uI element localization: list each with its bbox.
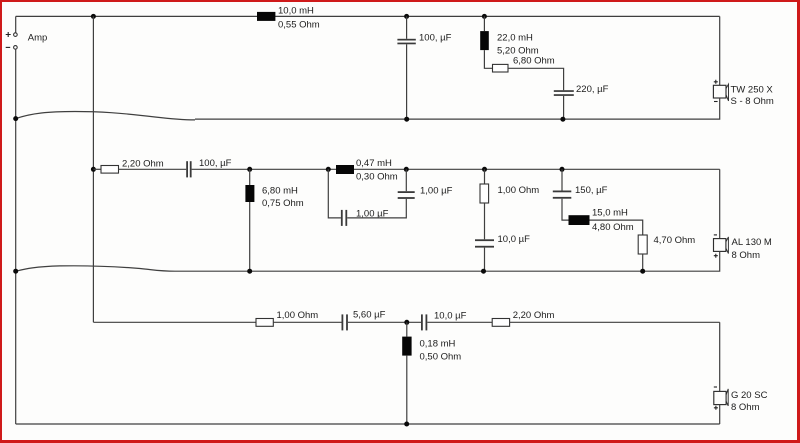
node junction mid rail section 2 bbox=[91, 167, 96, 172]
wire RC branch lower bbox=[484, 248, 486, 272]
wire section2 main left bbox=[93, 168, 101, 170]
resistor 2,20 Ohm section3 bbox=[492, 319, 509, 327]
resistor 6,80 Ohm bbox=[493, 64, 509, 72]
inductor 6,80 mH bbox=[245, 185, 254, 202]
svg-text:4,80 Ohm: 4,80 Ohm bbox=[592, 222, 634, 233]
wire section3 right drop bbox=[719, 322, 721, 391]
wire resistor to 5,60uF bbox=[273, 321, 341, 323]
wire 220uF to bottom bbox=[563, 96, 565, 119]
wire top section bottom wavy bbox=[16, 112, 195, 120]
svg-text:2,20 Ohm: 2,20 Ohm bbox=[122, 159, 164, 170]
node junction 150uF branch bbox=[560, 167, 565, 172]
node junction at 6,80mH bbox=[247, 167, 252, 172]
wire 22mH branch upper bbox=[483, 16, 485, 31]
terminal - bbox=[6, 46, 17, 50]
capacitor 10,0 uF section3 bbox=[421, 314, 427, 330]
node junction bottom-left top section bbox=[13, 116, 18, 121]
svg-text:0,47 mH: 0,47 mH bbox=[356, 158, 392, 169]
svg-text:2,20 Ohm: 2,20 Ohm bbox=[513, 310, 555, 321]
svg-text:0,55 Ohm: 0,55 Ohm bbox=[278, 20, 320, 31]
svg-text:1,00 Ohm: 1,00 Ohm bbox=[277, 310, 319, 321]
wire capacitor branch lower bbox=[406, 44, 408, 119]
capacitor 10,0 uF section2 bbox=[475, 239, 494, 247]
node junction bottom 6,80mH bbox=[247, 269, 252, 274]
wire 6,80mH upper bbox=[249, 169, 251, 185]
svg-text:TW 250 X: TW 250 X bbox=[731, 84, 774, 95]
node junction parallel LC right bbox=[404, 167, 409, 172]
inductor 0,47 mH bbox=[336, 165, 354, 174]
node junction section3 bbox=[404, 320, 409, 325]
svg-text:G 20 SC: G 20 SC bbox=[731, 390, 768, 401]
wire 150uF upper bbox=[561, 169, 563, 190]
svg-text:1,00 Ohm: 1,00 Ohm bbox=[498, 185, 540, 196]
wire resistor to 100uF cap section2 bbox=[119, 168, 187, 170]
svg-text:10,0 µF: 10,0 µF bbox=[434, 310, 467, 321]
wire 10,0uF to resistor bbox=[427, 321, 492, 323]
wire 150uF to 15mH bbox=[562, 199, 569, 220]
wire plus terminal to top rail bbox=[15, 16, 17, 32]
wire RC branch middle bbox=[484, 203, 486, 239]
wire RC branch upper bbox=[484, 169, 486, 184]
node junction bottom 100uF bbox=[404, 117, 409, 122]
wire resistor to 220uF cap bbox=[508, 68, 564, 90]
wire 15mH to 4,70 Ohm bbox=[590, 220, 643, 235]
inductor 0,18 mH bbox=[402, 337, 411, 356]
wire top rail bbox=[16, 15, 720, 17]
wire LC lower branch left drop bbox=[328, 169, 341, 218]
svg-text:0,30 Ohm: 0,30 Ohm bbox=[356, 172, 398, 183]
capacitor 100, uF section2 bbox=[186, 161, 191, 177]
svg-text:100, µF: 100, µF bbox=[419, 33, 452, 44]
svg-text:6,80 Ohm: 6,80 Ohm bbox=[513, 56, 555, 67]
capacitor 1,00 uF series bbox=[341, 210, 347, 226]
resistor 4,70 Ohm bbox=[638, 235, 647, 254]
wire bottom rail bbox=[16, 423, 720, 425]
wire top section right drop bbox=[719, 16, 721, 85]
svg-text:22,0 mH: 22,0 mH bbox=[497, 33, 533, 44]
wire section2 right drop bbox=[719, 169, 721, 238]
wire 22mH to resistor bbox=[484, 50, 492, 68]
wire capacitor branch upper bbox=[406, 16, 408, 38]
node junction bottom 4,70 Ohm bbox=[640, 269, 645, 274]
wire speaker TW to bottom wire bbox=[195, 98, 720, 119]
wire section3 top right bbox=[510, 321, 720, 323]
svg-text:10,0 µF: 10,0 µF bbox=[498, 234, 531, 245]
svg-text:6,80 mH: 6,80 mH bbox=[262, 185, 298, 196]
capacitor 150, uF bbox=[553, 191, 572, 199]
node junction top at 100uF bbox=[404, 14, 409, 19]
svg-text:Amp: Amp bbox=[28, 33, 48, 44]
svg-text:1,00 µF: 1,00 µF bbox=[420, 185, 453, 196]
wire mid plus rail vertical bbox=[92, 16, 94, 322]
wire 4,70 Ohm lower bbox=[642, 254, 644, 271]
node junction RC branch bbox=[482, 167, 487, 172]
node junction bottom 220uF bbox=[560, 117, 565, 122]
node junction top at mid rail bbox=[91, 14, 96, 19]
svg-text:0,75 Ohm: 0,75 Ohm bbox=[262, 198, 304, 209]
wire 0,18mH lower bbox=[406, 356, 408, 424]
svg-text:AL 130 M: AL 130 M bbox=[732, 237, 772, 248]
wire speaker G20 to bottom rail bbox=[719, 405, 721, 424]
speaker TW 250 X bbox=[713, 80, 728, 102]
node junction parallel LC left bbox=[326, 167, 331, 172]
capacitor 100 uF top section bbox=[397, 39, 415, 45]
wire 5,60uF to junction bbox=[348, 321, 421, 323]
resistor 1,00 Ohm section3 bbox=[256, 319, 273, 327]
terminal + bbox=[6, 32, 17, 37]
wire speaker AL to bottom bbox=[175, 251, 720, 271]
wire section3 top left bbox=[93, 321, 256, 323]
speaker AL 130 M bbox=[714, 235, 729, 258]
wire section2 main to right bbox=[192, 168, 720, 170]
svg-text:S - 8 Ohm: S - 8 Ohm bbox=[731, 96, 774, 107]
wire LC vertical cap upper bbox=[405, 169, 407, 191]
wire LC lower branch right bbox=[347, 199, 406, 218]
wire section2 bottom wavy bbox=[16, 266, 175, 271]
node junction bottom RC bbox=[481, 269, 486, 274]
svg-text:10,0 mH: 10,0 mH bbox=[278, 5, 314, 16]
svg-text:8 Ohm: 8 Ohm bbox=[731, 402, 760, 413]
speaker G 20 SC bbox=[714, 387, 728, 410]
node junction bottom-left section2 bbox=[13, 269, 18, 274]
svg-text:150, µF: 150, µF bbox=[575, 185, 608, 196]
capacitor 1,00 uF vertical bbox=[398, 191, 415, 199]
svg-text:0,18 mH: 0,18 mH bbox=[420, 338, 456, 349]
resistor 1,00 Ohm section2 bbox=[480, 184, 489, 203]
node junction top at 22mH bbox=[482, 14, 487, 19]
wire minus rail left bbox=[15, 49, 17, 424]
svg-text:8 Ohm: 8 Ohm bbox=[732, 250, 761, 261]
svg-text:0,50 Ohm: 0,50 Ohm bbox=[420, 351, 462, 362]
inductor 22,0 mH bbox=[480, 31, 489, 50]
svg-text:220, µF: 220, µF bbox=[576, 84, 609, 95]
svg-text:4,70 Ohm: 4,70 Ohm bbox=[654, 235, 696, 246]
resistor 2,20 Ohm section2 bbox=[101, 166, 119, 174]
wire 0,18mH upper bbox=[406, 322, 408, 336]
svg-text:5,60 µF: 5,60 µF bbox=[353, 309, 386, 320]
svg-text:100, µF: 100, µF bbox=[199, 158, 232, 169]
capacitor 220, uF bbox=[554, 90, 574, 96]
wire 6,80mH lower bbox=[249, 202, 251, 271]
node junction bottom rail 0,18mH bbox=[404, 422, 409, 427]
inductor 15,0 mH bbox=[569, 215, 590, 225]
inductor 10,0 mH bbox=[257, 12, 275, 21]
capacitor 5,60 uF bbox=[342, 314, 348, 330]
svg-text:15,0 mH: 15,0 mH bbox=[592, 208, 628, 219]
